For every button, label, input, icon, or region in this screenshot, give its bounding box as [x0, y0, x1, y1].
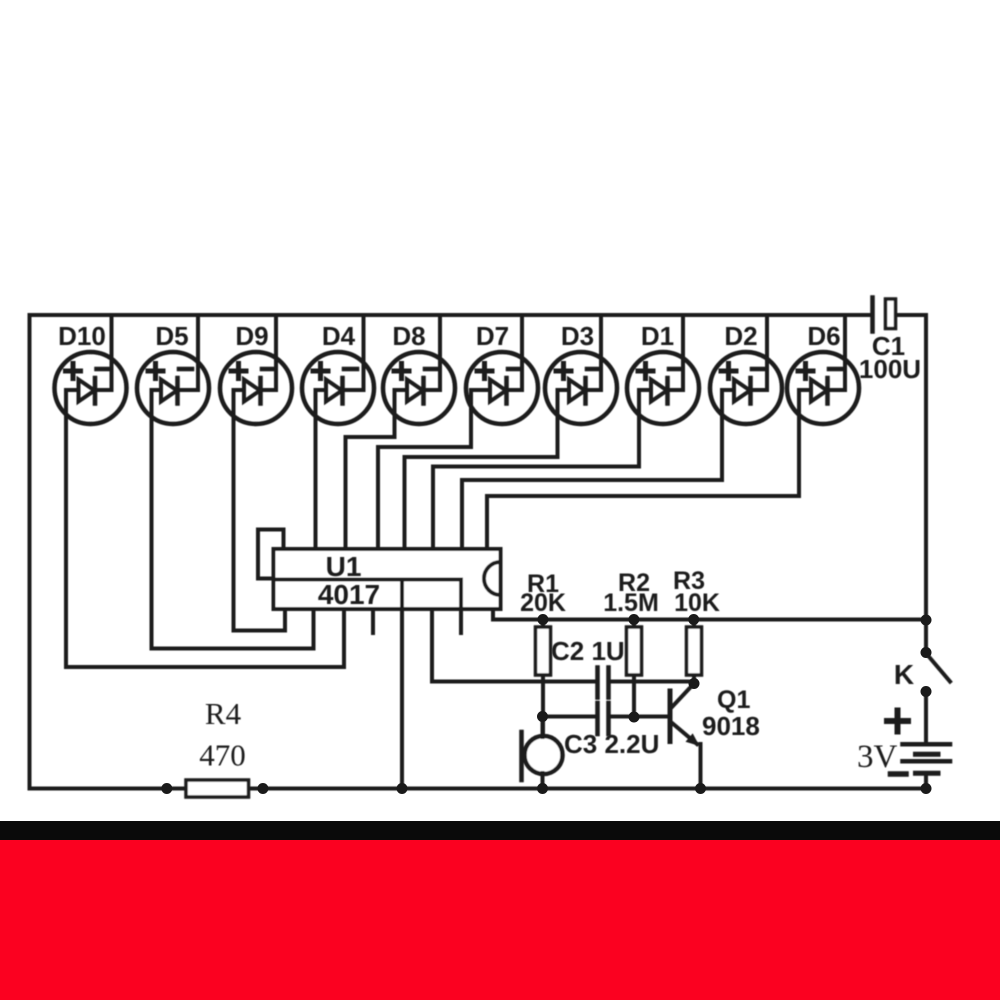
- node R1 top: [537, 614, 548, 625]
- microphone MIC: [522, 717, 563, 789]
- node Q1 base: [629, 712, 640, 723]
- svg-text:9018: 9018: [702, 711, 760, 741]
- wire D3 anode to U1 top: [405, 457, 558, 549]
- node switch lower: [921, 686, 932, 697]
- LED D3: [545, 315, 617, 457]
- LED D1: [627, 315, 699, 467]
- svg-text:20K: 20K: [520, 589, 566, 617]
- red banner band: [0, 840, 1000, 1000]
- svg-text:D6: D6: [807, 321, 840, 351]
- svg-text:3V: 3V: [857, 739, 898, 775]
- wire D6 anode to U1 top: [487, 496, 799, 549]
- wire D1 anode to U1 top: [433, 467, 639, 550]
- transistor Q1: [670, 684, 701, 789]
- node U1 ground pin: [397, 783, 408, 794]
- node Q1 emitter: [695, 783, 706, 794]
- svg-text:U1: U1: [326, 551, 362, 582]
- wire U1 pin stub 2: [459, 580, 463, 634]
- wire D9 anode to U1 bottom: [234, 609, 286, 631]
- svg-text:10K: 10K: [674, 589, 720, 617]
- resistor R4: [186, 780, 249, 797]
- LED D6: [787, 315, 859, 496]
- svg-text:Q1: Q1: [717, 686, 750, 714]
- wire U1 pin to resistor rail: [493, 609, 926, 620]
- wire D2 anode to U1 top: [462, 480, 722, 549]
- svg-text:D5: D5: [155, 321, 188, 351]
- node battery minus: [921, 783, 932, 794]
- node mic bottom: [537, 783, 548, 794]
- LED D2: [710, 315, 782, 480]
- black banner stripe: [0, 821, 1000, 840]
- node Q1 collector: [689, 678, 700, 689]
- svg-text:D9: D9: [235, 321, 268, 351]
- wire D10 anode to U1 bottom: [66, 609, 344, 667]
- LED D10: [55, 315, 127, 667]
- capacitor C2: [598, 668, 695, 698]
- capacitor C3: [543, 703, 669, 734]
- node switch upper: [921, 647, 932, 658]
- LED D8: [383, 315, 455, 437]
- node mic top: [537, 711, 548, 722]
- wire D8 anode to U1 top: [346, 437, 395, 549]
- svg-text:K: K: [894, 659, 914, 690]
- node R4 left: [161, 783, 172, 794]
- svg-text:D4: D4: [322, 321, 356, 351]
- wire D7 anode to U1 top: [378, 447, 471, 549]
- wire U1 pin to C2: [432, 609, 595, 682]
- resistor R3: [687, 620, 702, 684]
- wire bottom rail right of R4: [249, 787, 927, 791]
- svg-text:1.5M: 1.5M: [603, 589, 659, 617]
- wire D5 anode to U1 bottom: [152, 609, 314, 649]
- svg-text:C3 2.2U: C3 2.2U: [564, 729, 659, 759]
- wire bottom rail left of R4: [30, 787, 187, 791]
- svg-text:100U: 100U: [859, 354, 921, 384]
- LED D4: [302, 315, 374, 549]
- node R4 right: [257, 783, 268, 794]
- LED D9: [220, 315, 292, 631]
- svg-text:C2 1U: C2 1U: [551, 636, 625, 666]
- svg-text:D2: D2: [724, 321, 757, 351]
- node R2 top: [628, 614, 639, 625]
- svg-text:D3: D3: [561, 321, 594, 351]
- resistor R2: [627, 620, 642, 718]
- node rail right: [921, 615, 932, 626]
- svg-text:D1: D1: [641, 321, 674, 351]
- svg-text:D10: D10: [58, 321, 106, 351]
- wire top positive rail: [30, 315, 871, 789]
- capacitor C1: [873, 298, 896, 332]
- svg-text:D7: D7: [476, 321, 509, 351]
- switch K: [926, 620, 950, 744]
- op-amp U1 4017 IC body: [258, 530, 501, 610]
- wire U1 pin stub: [371, 609, 375, 633]
- node R3 top: [688, 614, 699, 625]
- LED D7: [466, 315, 538, 447]
- svg-text:4017: 4017: [318, 579, 380, 610]
- resistor R1: [536, 620, 551, 738]
- svg-text:D8: D8: [392, 321, 425, 351]
- LED D5: [137, 315, 209, 649]
- battery 3V: [887, 711, 950, 789]
- wire U1 pin to bottom rail: [400, 580, 404, 789]
- wire right frame from C1 to switch: [896, 315, 927, 620]
- svg-text:R4: R4: [205, 696, 242, 731]
- svg-text:470: 470: [199, 738, 246, 773]
